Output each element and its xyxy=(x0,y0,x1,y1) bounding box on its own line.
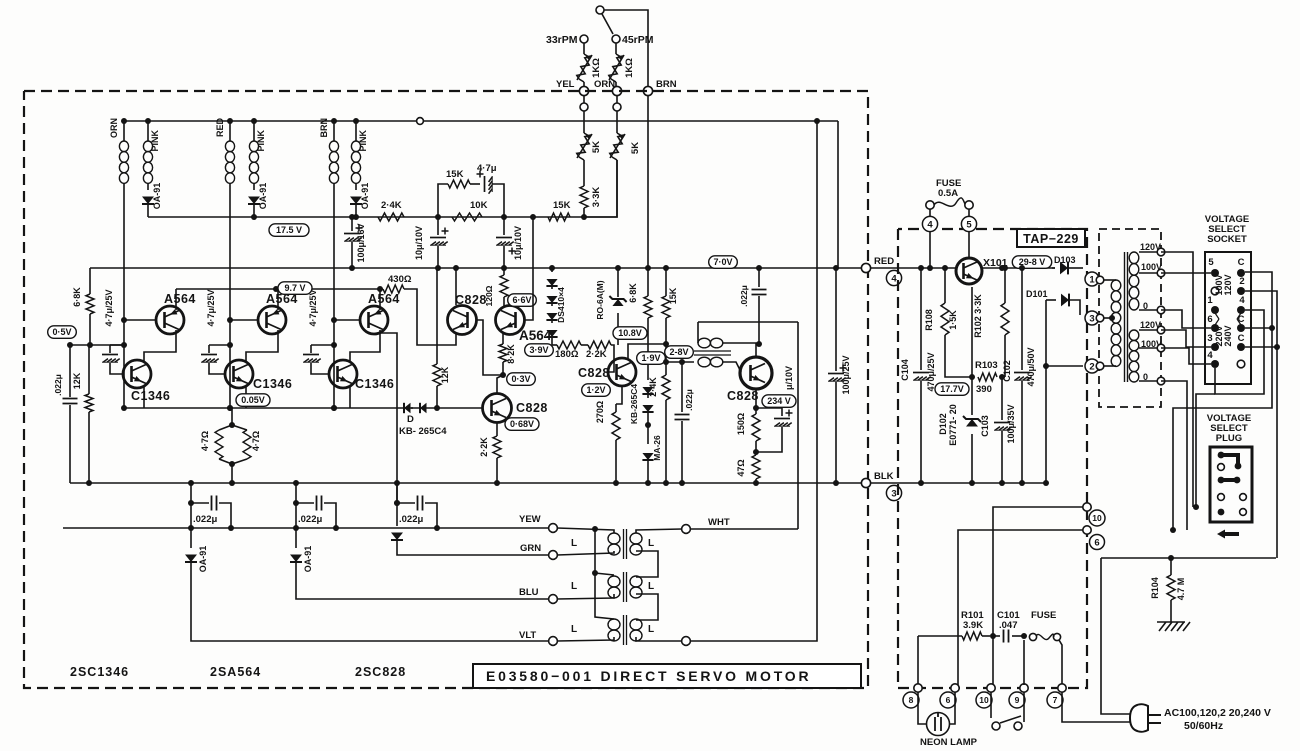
pin link xyxy=(1237,319,1241,325)
svg-text:3: 3 xyxy=(1207,333,1212,344)
svg-text:2·4K: 2·4K xyxy=(648,377,658,397)
switch common contact xyxy=(596,6,604,14)
resistor 15K (x101 area) xyxy=(665,268,667,296)
diode DS410 (3) xyxy=(546,313,557,320)
wire terminal 6 internal xyxy=(958,530,1083,685)
connector BLU xyxy=(549,595,558,604)
junction on B2 xyxy=(663,265,669,271)
svg-text:ORN: ORN xyxy=(109,118,119,138)
svg-text:10: 10 xyxy=(1092,513,1102,523)
zener diode D102 E0771-20 xyxy=(971,287,973,377)
wire xyxy=(697,322,699,343)
capacitor 4.7u/25V stage 1 xyxy=(102,354,118,356)
terminal 10 (bottom) xyxy=(976,692,992,708)
wire cap to C1346 base xyxy=(311,363,330,374)
wire xyxy=(253,183,255,190)
resistor 6.8K xyxy=(86,294,94,314)
junction xyxy=(999,374,1005,380)
wire xyxy=(929,209,931,217)
contact xyxy=(613,103,621,111)
wire xyxy=(109,345,111,353)
transistor C1346 (2) 2SC1346 xyxy=(225,360,253,388)
voltage bubble 17.5V xyxy=(269,224,309,237)
terminal 3 xyxy=(886,485,901,500)
connector 6 (bottom) xyxy=(951,684,959,692)
connector 9 (bottom) xyxy=(1020,684,1028,692)
svg-text:E0771- 20: E0771- 20 xyxy=(948,404,958,446)
resistor 3.3K xyxy=(580,186,588,208)
transistor X101 xyxy=(956,258,982,284)
junction on B2 xyxy=(549,265,555,271)
wire xyxy=(615,82,617,86)
connector 10 (bottom) xyxy=(987,684,995,692)
svg-text:PINK: PINK xyxy=(150,130,160,152)
tap 100V xyxy=(1157,269,1165,277)
svg-text:PINK: PINK xyxy=(256,130,266,152)
plug prong xyxy=(1148,722,1161,724)
svg-text:BRN: BRN xyxy=(656,79,677,90)
svg-text:180Ω: 180Ω xyxy=(555,349,579,360)
svg-text:5: 5 xyxy=(966,219,972,230)
svg-text:2-8V: 2-8V xyxy=(669,347,688,357)
junction xyxy=(753,480,759,486)
junction xyxy=(121,342,127,348)
wire coil to base column xyxy=(333,183,335,408)
svg-text:2·2K: 2·2K xyxy=(586,349,607,360)
diode OA-91 (1) xyxy=(142,197,154,205)
svg-text:2SA564: 2SA564 xyxy=(210,665,261,679)
wire xyxy=(190,483,192,503)
wire to plug xyxy=(1101,558,1131,714)
driver transformer primary xyxy=(698,338,710,348)
wire switch to BRN column xyxy=(604,10,648,86)
diode OA-91 (3) xyxy=(350,197,362,205)
wire 430ohm to C828 emitter xyxy=(404,289,456,345)
svg-text:4·7μ/25V: 4·7μ/25V xyxy=(308,289,318,326)
svg-text:45rPM: 45rPM xyxy=(622,34,654,46)
svg-text:6·8K: 6·8K xyxy=(628,283,638,303)
wire A564 collector up xyxy=(277,289,279,310)
svg-text:17.5 V: 17.5 V xyxy=(276,225,302,235)
ground xyxy=(1157,622,1190,631)
wire xyxy=(968,209,970,217)
svg-text:C828: C828 xyxy=(727,389,759,403)
wire GRN to T1 bottom xyxy=(557,551,614,555)
voltage bubble 10.8V xyxy=(613,327,647,340)
wire T8 collector xyxy=(628,344,666,359)
wire xyxy=(595,573,614,575)
switch 33rPM contact xyxy=(580,35,588,43)
resistor 180ohm xyxy=(557,341,581,349)
resistor 47ohm xyxy=(752,455,760,479)
potentiometer 1K (45rpm) xyxy=(616,54,621,57)
resistor 15K (B1) xyxy=(548,213,570,221)
wire xyxy=(355,204,357,217)
svg-text:4·7μ/25V: 4·7μ/25V xyxy=(104,289,114,326)
wire xyxy=(583,82,585,86)
sensing coil pair stage 1 xyxy=(123,121,125,141)
pin link xyxy=(1215,313,1219,319)
svg-text:L: L xyxy=(648,538,654,549)
svg-text:1KΩ: 1KΩ xyxy=(591,58,602,78)
svg-text:5: 5 xyxy=(1208,257,1214,268)
plug prong xyxy=(1148,714,1161,716)
junction on B2 xyxy=(615,265,621,271)
wire xyxy=(502,333,504,344)
terminal 8 (bottom) xyxy=(903,692,919,708)
core line xyxy=(1124,252,1126,382)
svg-text:KB-265C4: KB-265C4 xyxy=(629,384,639,424)
core line xyxy=(623,572,625,602)
core line xyxy=(1127,252,1129,382)
wire xyxy=(1139,380,1157,382)
junction xyxy=(1043,480,1049,486)
resistor 270ohm xyxy=(612,412,620,440)
svg-text:3·9V: 3·9V xyxy=(529,345,548,355)
svg-text:RED: RED xyxy=(874,256,894,267)
wire xyxy=(1139,309,1157,311)
svg-text:470μ/25V: 470μ/25V xyxy=(926,352,936,391)
wire xyxy=(755,441,757,455)
transistor A564 (1) 2SA564 xyxy=(156,306,184,334)
driver transformer secondary xyxy=(698,357,710,367)
wire 0 to terminal 6 xyxy=(1161,381,1187,530)
wire 9.7V collector bus xyxy=(176,288,383,290)
terminal 10 xyxy=(1089,510,1105,526)
wire xyxy=(552,344,557,346)
svg-text:A564: A564 xyxy=(164,292,196,306)
wire xyxy=(723,342,759,344)
resistor 430ohm xyxy=(383,285,404,293)
svg-text:4: 4 xyxy=(927,219,933,230)
svg-text:D102: D102 xyxy=(938,413,948,435)
svg-text:2: 2 xyxy=(1239,276,1244,287)
junction on B1 xyxy=(501,214,507,220)
wire ground bus BLK xyxy=(70,482,866,484)
resistor 15K (loop) xyxy=(448,180,470,188)
junction xyxy=(67,342,73,348)
socket pin 2 xyxy=(1237,287,1245,295)
svg-text:6: 6 xyxy=(1207,314,1212,325)
junction on B2 xyxy=(645,265,651,271)
wire RED to TAP xyxy=(871,267,956,269)
wire xyxy=(147,183,149,190)
svg-text:.022μ: .022μ xyxy=(739,285,749,307)
motor winding transformer 1 xyxy=(608,533,620,544)
svg-text:1·5K: 1·5K xyxy=(948,310,958,330)
resistor R102 3.3K xyxy=(1004,268,1006,303)
svg-text:TAP−229: TAP−229 xyxy=(1023,232,1079,246)
switch 45rPM contact xyxy=(612,35,620,43)
wire xyxy=(929,231,931,268)
wire xyxy=(665,362,667,375)
resistor 2.2K xyxy=(588,341,611,349)
wire A564 emitter to C1346 collector xyxy=(246,330,278,361)
wire xyxy=(583,111,585,133)
junction xyxy=(645,480,651,486)
svg-text:.022μ: .022μ xyxy=(193,514,217,525)
pin link xyxy=(1215,319,1219,325)
wire X101 to D103 xyxy=(982,267,1055,269)
capacitor C102 470u/50V xyxy=(1021,268,1023,370)
svg-text:50/60Hz: 50/60Hz xyxy=(1184,720,1223,732)
junction on B1 xyxy=(251,214,257,220)
zener diode RO-6A(M) xyxy=(617,268,619,297)
svg-text:5K: 5K xyxy=(630,142,641,154)
connector BLK xyxy=(861,478,870,487)
svg-text:OA-91: OA-91 xyxy=(360,183,370,210)
wire xyxy=(551,337,553,345)
capacitor C103 100u/35V xyxy=(1001,377,1003,420)
junction xyxy=(86,480,92,486)
svg-text:D: D xyxy=(407,414,414,425)
socket pin 1 xyxy=(1211,306,1219,314)
TAP-229 dashed border xyxy=(898,229,1087,688)
wire xyxy=(496,458,498,483)
transistor A564 (3) 2SA564 xyxy=(360,306,388,334)
resistor 2.2K (emitter) xyxy=(493,436,501,458)
junction xyxy=(227,342,233,348)
connector RED xyxy=(861,263,870,272)
diode MA-26 xyxy=(642,453,653,460)
wire xyxy=(295,483,297,503)
svg-text:YEL: YEL xyxy=(556,79,575,90)
terminal 5 (fuse) xyxy=(961,216,976,231)
wire xyxy=(583,208,585,217)
wire xyxy=(253,204,255,217)
junction 0.3V node xyxy=(500,372,506,378)
junction on B2 xyxy=(501,265,507,271)
svg-text:C: C xyxy=(1238,257,1245,268)
voltage bubble 0.3V xyxy=(507,373,536,386)
wire xyxy=(310,345,312,353)
svg-text:2SC1346: 2SC1346 xyxy=(70,665,129,679)
svg-text:4: 4 xyxy=(1207,350,1213,361)
connector 8 (bottom) xyxy=(914,684,922,692)
core line xyxy=(626,615,628,645)
wire GRN row xyxy=(397,540,549,555)
svg-text:D103: D103 xyxy=(1054,255,1076,265)
svg-text:0.05V: 0.05V xyxy=(241,395,265,405)
core line xyxy=(694,350,731,352)
diode OA-91 (BLU) xyxy=(295,503,297,548)
voltage bubble 0.68V xyxy=(505,418,539,431)
svg-text:.022μ: .022μ xyxy=(399,514,423,525)
svg-text:5K: 5K xyxy=(591,141,602,153)
svg-text:1KΩ: 1KΩ xyxy=(624,58,635,78)
svg-text:430Ω: 430Ω xyxy=(388,274,412,285)
svg-text:.022μ: .022μ xyxy=(684,389,694,411)
svg-text:DS410×4: DS410×4 xyxy=(556,287,566,323)
junction xyxy=(663,480,669,486)
voltage bubble 9.7V xyxy=(278,282,312,295)
wire C828 base to 0.3V node xyxy=(476,320,503,375)
svg-text:2·2K: 2·2K xyxy=(479,437,489,457)
svg-text:0·5V: 0·5V xyxy=(52,327,71,337)
wire T1-T2 link xyxy=(636,551,658,577)
socket pin 3 xyxy=(1211,343,1219,351)
wire base line stage1 xyxy=(70,344,124,346)
wire coil to base column xyxy=(123,183,125,408)
terminal 6 (bottom) xyxy=(940,692,956,708)
svg-text:RED: RED xyxy=(215,118,225,138)
svg-text:33rPM: 33rPM xyxy=(546,34,578,46)
wire xyxy=(311,344,334,346)
socket pin C xyxy=(1237,324,1245,332)
junction on B1 xyxy=(435,214,441,220)
capacitor 4.7u/25V stage 3 xyxy=(303,354,319,356)
svg-text:12K: 12K xyxy=(72,372,82,389)
resistor 150ohm xyxy=(752,414,760,441)
svg-text:C104: C104 xyxy=(900,359,910,381)
junction xyxy=(1043,363,1049,369)
resistor 120ohm xyxy=(500,275,508,297)
wire 33rpm to pot xyxy=(583,43,585,54)
transistor C828 (4) 2SC828 xyxy=(608,358,636,386)
svg-text:0.5A: 0.5A xyxy=(938,188,958,199)
svg-text:0·3V: 0·3V xyxy=(511,374,530,384)
wire pin C mid xyxy=(1245,327,1272,329)
svg-text:1·9V: 1·9V xyxy=(641,353,660,363)
core line xyxy=(626,572,628,602)
junction on B2 xyxy=(435,265,441,271)
svg-text:2SC828: 2SC828 xyxy=(355,665,406,679)
junction xyxy=(756,341,762,347)
svg-text:BLK: BLK xyxy=(874,471,894,482)
wire 100V to pin4 xyxy=(1161,348,1211,364)
connector 10 xyxy=(1083,503,1091,511)
coil L6 xyxy=(351,141,360,152)
junction xyxy=(663,341,669,347)
tap 100V xyxy=(1157,344,1165,352)
socket pin 4 xyxy=(1237,306,1245,314)
capacitor 4.7u/25V stage 2 xyxy=(201,354,217,356)
junction on B1 xyxy=(530,214,536,220)
svg-text:μ/10V: μ/10V xyxy=(784,366,794,390)
svg-text:WHT: WHT xyxy=(708,517,730,528)
sensing coil pair stage 2 xyxy=(229,121,231,141)
svg-text:C1346: C1346 xyxy=(355,377,394,391)
wire cap to C1346 base xyxy=(110,363,124,374)
svg-text:PLUG: PLUG xyxy=(1216,433,1242,444)
svg-text:10K: 10K xyxy=(470,200,488,211)
svg-text:AC100,120,2 20,240 V: AC100,120,2 20,240 V xyxy=(1164,707,1271,719)
svg-text:C102: C102 xyxy=(1002,360,1012,382)
wire 100V to pin5 xyxy=(1161,272,1211,274)
junction xyxy=(645,422,651,428)
wire xyxy=(647,318,649,380)
wire xyxy=(69,405,71,483)
svg-text:6·6V: 6·6V xyxy=(512,295,531,305)
wire T9 emitter xyxy=(755,389,757,414)
wire fuse to terminal 7 xyxy=(1059,640,1062,685)
wire top link xyxy=(698,321,798,323)
wire base A564 xyxy=(334,319,360,321)
wire BRN down to supply rail xyxy=(647,96,649,268)
svg-text:2: 2 xyxy=(1089,361,1094,372)
junction xyxy=(1021,633,1027,639)
svg-text:17.7V: 17.7V xyxy=(940,384,964,394)
voltage select socket box xyxy=(1205,252,1251,384)
pin link xyxy=(1237,313,1241,319)
svg-text:15K: 15K xyxy=(668,287,678,304)
svg-text:8·2K: 8·2K xyxy=(506,344,516,364)
wire xyxy=(503,268,505,275)
svg-text:C828: C828 xyxy=(578,366,610,380)
junction xyxy=(1269,325,1275,331)
connector YEW xyxy=(549,524,558,533)
svg-text:A564: A564 xyxy=(519,328,552,343)
svg-text:9: 9 xyxy=(1015,695,1020,705)
wire xyxy=(615,440,617,483)
tap connector 2 xyxy=(1096,362,1104,370)
wire 45rpm to pot xyxy=(615,43,617,54)
tap connector 3 xyxy=(1096,314,1104,322)
wire 120V to terminal 10 xyxy=(1161,252,1193,507)
wire xyxy=(1046,365,1083,367)
core line xyxy=(694,354,731,356)
wire xyxy=(396,483,398,503)
capacitor 10u/10V (output) xyxy=(756,408,782,416)
voltage bubble 3.9V xyxy=(525,344,554,357)
svg-text:0·68V: 0·68V xyxy=(510,419,534,429)
wire pin 4 net xyxy=(1215,310,1264,394)
terminal 7 (bottom) xyxy=(1047,692,1063,708)
voltage select plug box xyxy=(1210,447,1252,522)
svg-text:7: 7 xyxy=(1053,695,1058,705)
terminal 4 xyxy=(886,270,901,285)
connector 7 (bottom) xyxy=(1058,684,1066,692)
voltage bubble 7.0V xyxy=(709,256,738,268)
svg-text:C828: C828 xyxy=(455,293,487,307)
resistor pair 4.7ohm xyxy=(231,408,233,425)
junction xyxy=(990,633,996,639)
socket pin 5 xyxy=(1211,269,1219,277)
voltage bubble 6.6V xyxy=(508,294,537,307)
junction xyxy=(331,405,337,411)
wire to T8 base xyxy=(608,345,614,372)
resistor 12K (input) xyxy=(85,394,93,412)
svg-text:SOCKET: SOCKET xyxy=(1207,234,1247,245)
svg-text:4·7Ω: 4·7Ω xyxy=(251,431,261,451)
power transformer secondary 1 xyxy=(1129,252,1139,264)
svg-text:BLU: BLU xyxy=(519,587,539,598)
svg-text:3: 3 xyxy=(891,488,896,499)
svg-text:10μ/10V: 10μ/10V xyxy=(414,226,424,260)
diode OA-91 (2) xyxy=(248,197,260,205)
svg-text:VLT: VLT xyxy=(519,630,536,641)
junction xyxy=(753,405,759,411)
tap 120V xyxy=(1157,326,1165,334)
svg-text:C1346: C1346 xyxy=(253,377,292,391)
svg-text:240V: 240V xyxy=(1223,325,1233,346)
resistor R108 1.5K xyxy=(944,268,946,303)
diode stack DS410x4 xyxy=(551,268,553,272)
wire xyxy=(616,96,618,103)
wire T1 to WHT xyxy=(636,529,682,533)
wire pin C net xyxy=(1173,272,1272,530)
connector BRN xyxy=(643,86,652,95)
connector YEL xyxy=(579,86,588,95)
wire A564 emitter to C1346 collector xyxy=(350,330,380,361)
junction xyxy=(377,286,383,292)
voltage bubble 0.05V xyxy=(236,394,270,407)
wire T9 collector xyxy=(756,344,759,357)
svg-text:6: 6 xyxy=(946,695,951,705)
svg-text:RO-6A(M): RO-6A(M) xyxy=(595,280,605,319)
junction xyxy=(1170,527,1176,533)
motor winding transformer 2 xyxy=(608,576,620,587)
